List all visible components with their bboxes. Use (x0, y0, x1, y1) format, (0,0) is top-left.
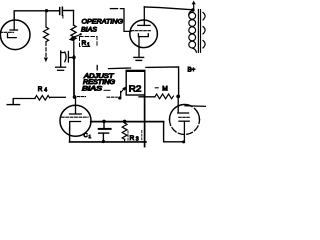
wire tube V3 right to x163 (91, 121, 164, 123)
tube V4 cathode (179, 120, 189, 122)
svg-text:OPERATING: OPERATING (82, 18, 124, 25)
transformer T1 secondary (partial) (203, 13, 205, 48)
tube V4 (output) (170, 104, 193, 119)
capacitor (mid-left) (61, 52, 74, 63)
wire junction to capacitor (47, 10, 59, 12)
svg-text:RESTING: RESTING (83, 80, 115, 86)
tube V4 plate lead to right edge (185, 105, 206, 108)
node C1 top (102, 120, 106, 124)
svg-text:R: R (82, 40, 87, 47)
arrowhead down (to bias supply) (44, 58, 48, 63)
tube V3 cathode (70, 122, 81, 129)
tube V4 grid (178, 112, 189, 114)
node M / grid junction (176, 95, 180, 99)
node cap junction (72, 56, 75, 59)
resistor R4 (35, 96, 50, 101)
R2 box (126, 71, 145, 95)
tube V2 plate (138, 7, 150, 26)
tube V1 plate (10, 18, 18, 30)
ground (under V2) (134, 57, 144, 60)
B+ stub arrow up (193, 3, 195, 9)
resistor M (155, 94, 173, 99)
svg-text:BIAS: BIAS (82, 87, 102, 93)
resistor grid-leak (vertical, dashed lower lead) (43, 11, 48, 57)
capacitor coupling (top) (60, 7, 63, 18)
dash of grid wire (110, 8, 117, 10)
svg-text:4: 4 (44, 88, 47, 94)
node R2 wiper bottom (118, 96, 121, 99)
tube V1 (0, 20, 30, 50)
heavy vertical from R2 box to rail (144, 95, 146, 147)
tube V4 grid lead from node (177, 96, 179, 112)
wire ground to R4 (13, 98, 35, 100)
R2 wiper arrow (121, 89, 124, 92)
tube V2 cathode (138, 34, 148, 37)
tube V4 cathode lead (183, 121, 185, 142)
svg-text:1: 1 (89, 134, 92, 139)
svg-text:1: 1 (87, 43, 90, 49)
tube V3 plate (70, 97, 82, 114)
wire plate V2 to transformer (144, 7, 192, 10)
svg-text:B+: B+ (188, 66, 196, 73)
tube V1 grid (0, 31, 14, 33)
wire y68 left segment (109, 67, 131, 70)
svg-text:C: C (84, 133, 88, 139)
wire pot down to plate node (73, 56, 75, 97)
pot R1 wiper arrow (72, 35, 81, 39)
svg-text:BIAS: BIAS (81, 27, 97, 34)
capacitor C1 (99, 122, 111, 142)
wire capacitor to pot R1 (63, 10, 73, 12)
bottom rail (70, 141, 146, 143)
tube V2 (130, 20, 158, 48)
potentiometer R1 body (71, 11, 76, 57)
node C1 bottom (102, 140, 105, 143)
svg-text:3: 3 (136, 137, 139, 143)
svg-text:R2: R2 (129, 85, 142, 94)
R3 label box (partial dashed) (127, 131, 129, 142)
svg-text:ADJUST: ADJUST (83, 74, 115, 80)
wire y67 right segment + corner down (146, 67, 179, 96)
wire plate V1 to top rail (14, 11, 46, 18)
R1 value box (dashed) (80, 37, 98, 48)
ground (mid-left) (56, 51, 66, 70)
wire cathode to ground (138, 37, 140, 57)
svg-text:R: R (130, 135, 135, 142)
svg-text:R: R (38, 86, 43, 93)
tube V3 (bias rectifier) (60, 105, 91, 136)
tube V2 grid lead (120, 9, 130, 32)
wire cathode to bottom rail (69, 128, 71, 142)
node cathode bottom (182, 140, 185, 143)
label M (155, 87, 158, 89)
wire R4 to node (51, 96, 66, 98)
transformer T1 primary (189, 11, 197, 53)
node plate junction (73, 95, 77, 99)
node junction top-left (45, 9, 48, 12)
tube V2 grid (132, 30, 151, 32)
tick near wire start (96, 66, 98, 70)
wire R2 bottom to M resistor (139, 96, 155, 98)
ground (R4 left) (7, 99, 19, 105)
dashed wire node to R2 wiper (78, 96, 86, 98)
wire L from x163 to cathode (164, 122, 184, 142)
svg-text:M: M (162, 85, 168, 92)
resistor R3 (122, 122, 127, 143)
tube V3 grid (62, 116, 89, 118)
node transformer top (191, 8, 195, 12)
node R3 top (123, 120, 127, 124)
tube V1 cathode (8, 34, 17, 38)
transformer T1 core (198, 10, 200, 53)
